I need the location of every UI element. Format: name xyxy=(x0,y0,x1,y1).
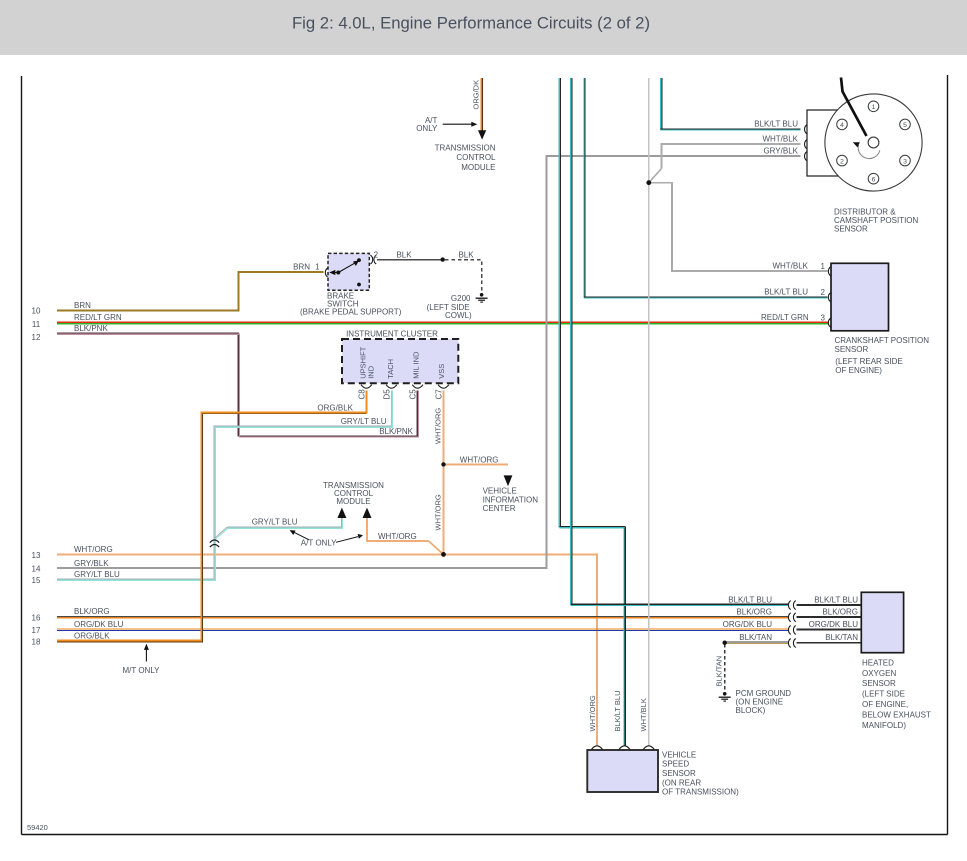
svg-text:TACH: TACH xyxy=(386,359,395,379)
brake switch lower contact dot xyxy=(357,283,361,287)
wire GRY/BLK pin 14 run to distributor xyxy=(57,156,801,568)
junction dot splice on BLK wire near G200 xyxy=(441,257,445,261)
ground G200 symbol xyxy=(476,293,488,302)
svg-text:1: 1 xyxy=(872,104,876,111)
brake switch common contact dot xyxy=(336,271,340,275)
svg-text:RED/LT GRN: RED/LT GRN xyxy=(74,313,122,322)
svg-text:A/T ONLY: A/T ONLY xyxy=(301,539,337,548)
svg-text:13: 13 xyxy=(32,551,41,560)
svg-text:BLK/PNK: BLK/PNK xyxy=(74,324,108,333)
wire ORG/DK vertical feed to transmission control module xyxy=(482,78,483,131)
wire BLK dashed to ground G200 xyxy=(445,260,482,292)
svg-text:1: 1 xyxy=(315,262,320,271)
wire GRY/LT BLU branch to transmission control module arrow xyxy=(227,517,343,528)
callout arrow A/T ONLY to WHT/ORG xyxy=(336,534,363,542)
distributor connector box xyxy=(807,110,838,176)
svg-text:BLK/ORG: BLK/ORG xyxy=(74,607,110,616)
arrow into transmission control module top xyxy=(478,130,486,139)
wire WHT/ORG branch to transmission control module arrow xyxy=(367,517,429,541)
svg-text:BLK/LT BLU: BLK/LT BLU xyxy=(728,596,772,605)
svg-text:2: 2 xyxy=(840,158,844,165)
svg-text:GRY/BLK: GRY/BLK xyxy=(74,559,109,568)
svg-text:GRY/LT BLU: GRY/LT BLU xyxy=(341,417,387,426)
svg-text:BLK/ORG: BLK/ORG xyxy=(736,608,772,617)
arrow into vehicle information center xyxy=(504,475,513,486)
svg-text:3: 3 xyxy=(821,314,826,323)
wire WHT/ORG diagonal joint into junction on pin 13 wire xyxy=(429,541,444,555)
svg-text:WHT/ORG: WHT/ORG xyxy=(74,545,113,554)
wire GRY/LT BLU pin 15 up through hop to instrument cluster pin D5 xyxy=(57,391,392,581)
distributor cap circle xyxy=(825,94,922,191)
svg-text:ORG/DK BLU: ORG/DK BLU xyxy=(723,620,773,629)
wire BLK/LT BLU tall vertical C to crankshaft sensor pin 2 xyxy=(584,78,828,298)
distributor terminal 3 xyxy=(900,155,911,166)
svg-text:BLOCK): BLOCK) xyxy=(736,706,766,715)
svg-text:MODULE: MODULE xyxy=(461,163,495,172)
svg-text:3: 3 xyxy=(903,158,907,165)
svg-text:BLK/TAN: BLK/TAN xyxy=(739,633,772,642)
brake switch upper contact dot xyxy=(357,258,361,262)
svg-text:14: 14 xyxy=(32,565,41,574)
svg-text:16: 16 xyxy=(32,613,41,622)
svg-text:CENTER: CENTER xyxy=(483,504,516,513)
svg-text:2: 2 xyxy=(821,288,826,297)
brake switch arrow to pin 1 xyxy=(329,270,338,275)
svg-text:ORG/BLK: ORG/BLK xyxy=(317,403,353,412)
svg-text:WHT/BLK: WHT/BLK xyxy=(762,135,798,144)
svg-text:RED/LT GRN: RED/LT GRN xyxy=(761,313,809,322)
svg-text:C8: C8 xyxy=(357,389,366,400)
svg-text:SPEED: SPEED xyxy=(662,760,689,769)
svg-text:OF ENGINE): OF ENGINE) xyxy=(835,366,882,375)
distributor center shaft circle xyxy=(868,137,879,148)
svg-text:WHT/ORG: WHT/ORG xyxy=(434,408,443,444)
heated oxygen sensor box xyxy=(861,592,903,652)
svg-text:17: 17 xyxy=(32,626,41,635)
svg-text:OF TRANSMISSION): OF TRANSMISSION) xyxy=(662,788,739,797)
junction dot BLK/TAN splice xyxy=(723,641,727,645)
svg-text:5: 5 xyxy=(903,122,907,129)
svg-text:M/T ONLY: M/T ONLY xyxy=(122,666,160,675)
svg-text:(ON REAR: (ON REAR xyxy=(662,778,701,787)
svg-text:TRANSMISSION: TRANSMISSION xyxy=(435,143,496,152)
crankshaft position sensor box xyxy=(831,263,889,331)
svg-text:BRN: BRN xyxy=(293,262,310,271)
distributor rotation arrow xyxy=(853,142,880,158)
wire heated oxygen sensor pigtails right of connector xyxy=(797,605,862,643)
brake switch dashed box xyxy=(328,253,369,290)
wire BRN pin 10 run to brake switch pin 1 xyxy=(57,272,324,311)
svg-text:MODULE: MODULE xyxy=(336,497,370,506)
svg-text:BLK/TAN: BLK/TAN xyxy=(825,633,858,642)
svg-text:(BRAKE PEDAL SUPPORT): (BRAKE PEDAL SUPPORT) xyxy=(300,307,402,316)
distributor terminal 6 xyxy=(868,173,879,184)
svg-text:WHT/ORG: WHT/ORG xyxy=(460,455,499,464)
wire BLK/PNK pin 12 run to instrument cluster pin C5 xyxy=(57,333,418,437)
svg-text:15: 15 xyxy=(32,576,41,585)
wire ORG/BLK instrument cluster C8 label segment xyxy=(365,391,367,413)
wire WHT/ORG pin 13 run to vehicle speed sensor xyxy=(57,554,597,746)
svg-text:VSS: VSS xyxy=(437,364,446,379)
wire WHT/BLK diagonal joint from junction to distributor branch xyxy=(649,169,662,183)
heated oxygen sensor inline connector (( arcs xyxy=(788,601,795,648)
svg-text:12: 12 xyxy=(32,333,41,342)
hop symbol on GRY/LT BLU vertical xyxy=(210,540,219,547)
svg-text:(LEFT SIDE: (LEFT SIDE xyxy=(862,690,905,699)
svg-text:BLK/ORG: BLK/ORG xyxy=(822,608,858,617)
junction dot WHT/ORG at vehicle information center branch xyxy=(441,462,445,466)
svg-text:COWL): COWL) xyxy=(445,311,472,320)
svg-text:WHT/BLK: WHT/BLK xyxy=(639,698,648,731)
distributor terminal 5 xyxy=(900,119,911,130)
wire BLK/TAN heated oxygen sensor to splice xyxy=(725,642,789,643)
svg-text:C7: C7 xyxy=(435,389,444,400)
svg-text:BRN: BRN xyxy=(74,301,91,310)
svg-text:SENSOR: SENSOR xyxy=(862,679,896,688)
svg-text:59420: 59420 xyxy=(27,823,48,832)
svg-text:4: 4 xyxy=(840,122,844,129)
wire BLK/LT BLU vertical D to distributor xyxy=(661,78,801,130)
svg-text:OXYGEN: OXYGEN xyxy=(862,669,896,678)
svg-text:ORG/DK BLU: ORG/DK BLU xyxy=(809,620,859,629)
distributor terminal 4 xyxy=(837,119,848,130)
svg-text:C5: C5 xyxy=(409,389,418,400)
brake switch pin 2 terminals )( arcs xyxy=(370,255,376,264)
svg-text:GRY/LT BLU: GRY/LT BLU xyxy=(74,570,120,579)
PCM ground symbol xyxy=(719,692,731,701)
vehicle speed sensor box xyxy=(587,750,658,792)
svg-text:WHT/ORG: WHT/ORG xyxy=(378,532,417,541)
instrument cluster dashed box xyxy=(342,339,458,383)
wire BLK/ORG pin 16 run to heated oxygen sensor connector xyxy=(57,616,789,617)
svg-text:BLK/LT BLU: BLK/LT BLU xyxy=(613,691,622,732)
instrument cluster pin terminal arcs xyxy=(361,385,449,389)
svg-text:SENSOR: SENSOR xyxy=(834,225,868,234)
svg-text:HEATED: HEATED xyxy=(862,658,894,667)
wire WHT/BLK branch to distributor xyxy=(662,144,801,169)
label UPSHIFT IND rotated xyxy=(358,346,375,379)
callout arrow A/T ONLY to GRY/LT BLU xyxy=(290,530,309,540)
svg-text:1: 1 xyxy=(821,262,826,271)
svg-text:VEHICLE: VEHICLE xyxy=(662,750,696,759)
svg-text:VEHICLE: VEHICLE xyxy=(483,487,517,496)
svg-text:G200: G200 xyxy=(451,294,471,303)
wire ORG/DK BLU pin 17 run to heated oxygen sensor connector xyxy=(57,629,789,630)
svg-text:D5: D5 xyxy=(383,389,392,400)
wire BLK/TAN dashed drop to PCM ground xyxy=(724,644,726,691)
svg-text:BLK/LT BLU: BLK/LT BLU xyxy=(764,288,808,297)
wire GRY/LT BLU diagonal joint to TCM branch xyxy=(214,527,228,539)
wire WHT/ORG branch to vehicle information center arrow xyxy=(444,463,509,465)
svg-text:BELOW EXHAUST: BELOW EXHAUST xyxy=(862,710,931,719)
svg-text:WHT/BLK: WHT/BLK xyxy=(772,261,808,270)
svg-text:WHT/ORG: WHT/ORG xyxy=(434,494,443,530)
arrow into TCM from GRY/LT BLU xyxy=(337,508,346,518)
svg-text:GRY/BLK: GRY/BLK xyxy=(763,147,798,156)
wire WHT/BLK branch to crankshaft sensor pin 1 xyxy=(649,183,828,271)
svg-text:BLK/PNK: BLK/PNK xyxy=(379,427,413,436)
svg-text:BLK: BLK xyxy=(458,250,474,259)
wire RED/LT GRN pin 11 run to crankshaft sensor pin 3 xyxy=(57,322,828,323)
distributor connector terminals ( arcs xyxy=(805,125,807,161)
svg-text:WHT/ORG: WHT/ORG xyxy=(588,695,597,731)
wire BLK/LT BLU tall vertical A to vehicle speed sensor teal drop xyxy=(559,78,625,746)
svg-text:ORG/BLK: ORG/BLK xyxy=(74,631,110,640)
svg-text:BLK/LT BLU: BLK/LT BLU xyxy=(814,596,858,605)
svg-text:2: 2 xyxy=(374,250,379,259)
label M/T ONLY with arrow xyxy=(144,644,149,662)
svg-text:OF ENGINE,: OF ENGINE, xyxy=(862,700,908,709)
svg-text:ORG/DK: ORG/DK xyxy=(471,80,480,110)
distributor terminal 2 xyxy=(837,155,848,166)
callout arrow A/T ONLY to ORG/DK wire xyxy=(443,122,478,127)
svg-text:BLK/TAN: BLK/TAN xyxy=(715,656,724,687)
svg-text:GRY/LT BLU: GRY/LT BLU xyxy=(252,518,298,527)
svg-text:ONLY: ONLY xyxy=(416,124,438,133)
wire BLK/LT BLU tall vertical B to heated oxygen sensor xyxy=(571,78,789,605)
svg-text:INFORMATION: INFORMATION xyxy=(483,495,539,504)
wire ORG/BLK pin 18 run to instrument cluster pin C8 xyxy=(57,391,366,642)
crankshaft sensor terminals ( arcs xyxy=(828,267,830,327)
junction dot on WHT/BLK vertical xyxy=(646,180,651,185)
svg-text:IND: IND xyxy=(366,365,375,379)
distributor terminal 1 xyxy=(868,101,879,112)
wire BLK brake switch pin 2 to splice xyxy=(377,259,443,261)
arrow into TCM from WHT/ORG xyxy=(363,508,372,518)
svg-text:Fig 2: 4.0L, Engine Performanc: Fig 2: 4.0L, Engine Performance Circuits… xyxy=(292,14,650,33)
svg-text:6: 6 xyxy=(872,176,876,183)
junction dot WHT/ORG on pin 13 wire xyxy=(441,552,446,557)
vehicle speed sensor terminal arcs xyxy=(592,746,655,750)
svg-text:SENSOR: SENSOR xyxy=(835,345,869,354)
brake switch lever arm with arrowhead xyxy=(338,260,359,272)
distributor rotor pointer xyxy=(841,78,867,137)
svg-text:MANIFOLD): MANIFOLD) xyxy=(862,721,906,730)
svg-text:11: 11 xyxy=(32,320,41,329)
header bar xyxy=(0,0,967,55)
brake switch pin 1 terminal ( arc xyxy=(325,268,327,277)
svg-text:ORG/DK BLU: ORG/DK BLU xyxy=(74,620,124,629)
wire WHT/BLK tall vertical to vehicle speed sensor xyxy=(648,78,650,746)
svg-text:SENSOR: SENSOR xyxy=(662,769,696,778)
svg-text:10: 10 xyxy=(32,306,41,315)
svg-text:MIL IND: MIL IND xyxy=(411,351,420,379)
svg-text:INSTRUMENT CLUSTER: INSTRUMENT CLUSTER xyxy=(346,329,438,338)
svg-text:CONTROL: CONTROL xyxy=(456,153,496,162)
wire WHT/ORG instrument cluster C7 vertical to junctions xyxy=(443,391,445,555)
svg-text:BLK/LT BLU: BLK/LT BLU xyxy=(754,120,798,129)
svg-text:BLK: BLK xyxy=(396,250,412,259)
svg-text:18: 18 xyxy=(32,637,41,646)
